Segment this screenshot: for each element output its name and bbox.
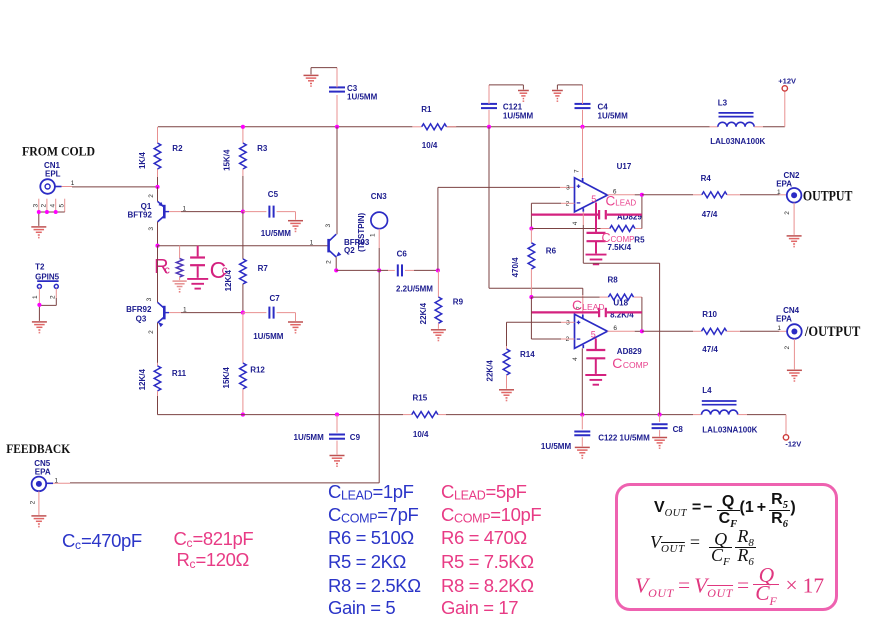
ground (R14): [499, 390, 514, 402]
ground (CCOMP U17, magenta): [586, 255, 607, 265]
svg-text:(TESTPIN): (TESTPIN): [357, 212, 366, 251]
wire: output to R4: [642, 194, 693, 196]
svg-text:R11: R11: [172, 369, 187, 378]
node: CN1/R2/Q1 junction: [155, 185, 159, 189]
node: rail/C3 junction: [335, 125, 339, 129]
svg-text:3: 3: [325, 224, 332, 228]
resistor R10: [693, 310, 740, 354]
svg-text:CN1: CN1: [44, 161, 61, 170]
resistor R5: [608, 226, 646, 252]
node: Q2 emitter junction: [334, 268, 338, 272]
svg-text:7: 7: [574, 169, 581, 173]
inductor L4: [702, 386, 787, 435]
capacitor C7: [243, 294, 296, 341]
svg-text:C: C: [606, 194, 616, 209]
connector CN4 EPA: [776, 306, 802, 369]
text Cc=821pF (pink): [174, 528, 254, 550]
capacitor Cc (compensation): [190, 246, 228, 283]
wire: C6 node to U17 + input: [438, 187, 575, 270]
svg-text:/OUTPUT: /OUTPUT: [804, 324, 861, 340]
ground (Cc, magenta): [187, 279, 208, 289]
capacitor C4: [557, 85, 628, 127]
node: Q1 collector node: [155, 244, 159, 248]
svg-text:2: 2: [566, 201, 570, 208]
svg-text:R8: R8: [608, 275, 619, 284]
svg-text:L4: L4: [702, 386, 712, 395]
svg-text:R5: R5: [634, 236, 645, 245]
svg-text:CN3: CN3: [371, 192, 388, 201]
svg-text:BFR92: BFR92: [126, 305, 152, 314]
svg-text:2: 2: [41, 204, 48, 208]
text column: gain=17 settings (pink): [441, 481, 527, 503]
capacitor C9: [294, 415, 361, 455]
svg-text:1: 1: [777, 189, 781, 196]
svg-text:22K/4: 22K/4: [485, 360, 494, 382]
capacitor C6: [388, 250, 438, 294]
svg-text:4: 4: [572, 357, 579, 361]
svg-text:1: 1: [32, 295, 39, 299]
wire: CN1 pin1 to Q1 node: [72, 186, 158, 188]
formula box: [615, 483, 838, 611]
node: R6/R8/CLEAD/U18 junction: [529, 295, 533, 299]
resistor R4: [693, 174, 740, 219]
ground (CCOMP U18, magenta): [585, 375, 606, 385]
node: R13/C9/rail junction: [335, 413, 339, 417]
svg-text:R12: R12: [250, 365, 265, 374]
svg-text:2: 2: [50, 295, 57, 299]
formula Vout = Vout(bar) = Q/CF x 17 (pink): [635, 567, 824, 606]
svg-text:47/4: 47/4: [702, 210, 718, 219]
text Rc=120ohm (pink): [177, 549, 249, 571]
svg-text:U17: U17: [617, 162, 632, 171]
connector CN3 TESTPIN: [357, 192, 388, 270]
node: T2 junction: [37, 303, 41, 307]
formula Vout(bar) = Q/CF * R8/R6: [650, 529, 756, 567]
svg-text:10/4: 10/4: [422, 141, 438, 150]
resistor R6: [511, 229, 557, 298]
wire: +12V top rail: [158, 126, 710, 128]
svg-text:EPA: EPA: [35, 468, 51, 477]
resistor R3: [223, 127, 268, 212]
svg-text:1U/5MM: 1U/5MM: [541, 442, 572, 451]
svg-text:2.2U/5MM: 2.2U/5MM: [396, 285, 433, 294]
node: Q3 base/C7/R7/R12 junction: [241, 311, 245, 315]
ground (R9): [431, 330, 446, 342]
svg-text:C121: C121: [503, 102, 523, 111]
node: Q1 base/C5/R3/R7 junction: [241, 210, 245, 214]
text column: gain=5 settings (blue): [328, 481, 414, 503]
resistor R14: [485, 346, 535, 389]
node: C8/rail junction: [658, 413, 662, 417]
svg-text:Q2: Q2: [344, 246, 355, 255]
formula Vout = -Q/CF(1+R5/R6): [654, 492, 796, 528]
svg-text:LAL03NA100K: LAL03NA100K: [710, 137, 765, 146]
svg-text:470/4: 470/4: [511, 257, 520, 278]
svg-text:EPA: EPA: [776, 315, 792, 324]
svg-text:3: 3: [32, 204, 39, 208]
svg-text:R1: R1: [421, 105, 432, 114]
svg-text:1U/5MM: 1U/5MM: [261, 229, 292, 238]
svg-text:12K/4: 12K/4: [138, 369, 147, 391]
svg-text:R10: R10: [702, 310, 717, 319]
wire: U18 pin4 to rail: [581, 348, 583, 414]
svg-text:R14: R14: [520, 350, 535, 359]
power -12V: [783, 415, 801, 449]
svg-text:EPA: EPA: [776, 180, 792, 189]
svg-text:EPL: EPL: [45, 170, 61, 179]
node: rail/C121 junction: [487, 125, 491, 129]
svg-text:R4: R4: [701, 174, 712, 183]
svg-text:4: 4: [49, 204, 56, 208]
svg-text:2: 2: [148, 330, 155, 334]
svg-text:1U/5MM: 1U/5MM: [347, 93, 378, 102]
svg-text:2: 2: [148, 194, 155, 198]
svg-text:R7: R7: [258, 264, 269, 273]
svg-text:C5: C5: [268, 190, 279, 199]
text Cc=470pF (blue): [62, 530, 142, 552]
ground (T2): [32, 322, 47, 334]
svg-text:FEEDBACK: FEEDBACK: [6, 442, 70, 456]
svg-text:T2: T2: [35, 263, 45, 272]
wire: Q1 base to C5 node: [181, 211, 243, 213]
connector CN1 EPL: [40, 161, 75, 194]
wire: feedback riser (CN3 to CN5): [47, 270, 379, 483]
capacitor C122: [541, 415, 650, 451]
svg-text:Q3: Q3: [136, 315, 147, 324]
wire: U18 + input / R14: [507, 322, 575, 346]
connector CN5 EPA: [29, 459, 58, 515]
wire: C3 node to Q2 collector: [336, 127, 338, 234]
svg-text:15K/4: 15K/4: [222, 367, 231, 389]
wire: R5 feedback: [531, 195, 642, 229]
svg-text:2: 2: [784, 211, 791, 215]
svg-text:3: 3: [148, 227, 155, 231]
svg-text:FROM COLD: FROM COLD: [22, 144, 95, 158]
wire: supply riser to U18 pin7: [489, 127, 583, 314]
ground (C7): [288, 322, 303, 334]
wire: Q1 collector to Q2 base: [158, 245, 329, 247]
wire: Q3 base to C7 node: [181, 312, 243, 314]
resistor R15: [412, 394, 438, 439]
resistor R11: [138, 363, 187, 415]
svg-text:+12V: +12V: [778, 76, 796, 85]
svg-text:2: 2: [325, 260, 332, 264]
wire: Q2 emitter to C6: [336, 269, 388, 271]
capacitor C121: [481, 85, 533, 127]
svg-text:-12V: -12V: [785, 440, 801, 449]
node: CN1 pin4 junction: [54, 210, 58, 214]
svg-text:2: 2: [566, 336, 570, 343]
node: U17 -/R5/R6/CLEAD junction: [529, 226, 533, 230]
svg-text:R6: R6: [546, 247, 557, 256]
svg-text:3: 3: [146, 297, 153, 301]
svg-text:1: 1: [370, 233, 377, 237]
capacitor C8: [652, 415, 684, 437]
svg-text:22K/4: 22K/4: [419, 302, 428, 324]
svg-text:7.5K/4: 7.5K/4: [608, 243, 632, 252]
node: U17 output junction: [640, 193, 644, 197]
svg-text:c: c: [164, 264, 170, 276]
svg-text:COMP: COMP: [623, 360, 649, 370]
wire: R2 column: [157, 127, 159, 187]
svg-text:C8: C8: [673, 425, 684, 434]
svg-text:C: C: [602, 231, 611, 245]
svg-text:1U/5MM: 1U/5MM: [294, 433, 325, 442]
svg-text:3: 3: [566, 185, 570, 192]
op-amp U18 AD829: [566, 298, 643, 361]
wire: U17 pin4 to rail: [583, 212, 659, 415]
svg-text:C7: C7: [270, 294, 281, 303]
resistor Rc (compensation): [154, 246, 183, 280]
svg-text:5: 5: [591, 330, 596, 340]
svg-text:LAL03NA100K: LAL03NA100K: [702, 426, 757, 435]
svg-text:C4: C4: [598, 102, 609, 111]
svg-text:5: 5: [58, 204, 65, 208]
capacitor CLEAD (U17, magenta): [531, 194, 642, 220]
svg-text:OUTPUT: OUTPUT: [803, 189, 853, 205]
svg-text:R9: R9: [453, 298, 464, 307]
transistor Q1 BFT92: [128, 187, 187, 246]
ground (C9): [330, 456, 345, 468]
wire: output to R10: [642, 330, 693, 332]
power +12V: [778, 76, 796, 127]
svg-text:1: 1: [310, 240, 314, 247]
svg-text:R2: R2: [172, 144, 183, 153]
capacitor C5: [243, 190, 296, 238]
svg-text:1: 1: [71, 180, 75, 187]
svg-text:1U/5MM: 1U/5MM: [253, 332, 284, 341]
node: CN1 pin3 junction: [37, 210, 41, 214]
svg-text:1: 1: [55, 478, 59, 485]
capacitor CCOMP (U17, magenta): [587, 203, 635, 254]
ground (CN5): [31, 516, 46, 527]
op-amp U17 AD829: [566, 127, 643, 225]
transistor Q3 BFR92: [126, 246, 187, 363]
ground (C4): [552, 91, 563, 103]
wire: U17 output: [607, 194, 642, 196]
ground (C121): [518, 91, 529, 103]
ground (Rc): [172, 281, 186, 293]
ground (C8): [652, 438, 667, 450]
wire: R10 to CN4: [740, 330, 787, 332]
ground (CN4): [787, 370, 802, 382]
svg-text:1: 1: [777, 325, 781, 332]
wire: U18 - input: [531, 297, 574, 339]
wire: CN1 ground pins: [32, 199, 65, 226]
svg-text:C: C: [612, 355, 622, 371]
svg-text:1U/5MM: 1U/5MM: [598, 112, 629, 121]
svg-text:10/4: 10/4: [413, 430, 429, 439]
node: CN1 pin2 junction: [45, 210, 49, 214]
connector T2 GPIN5: [32, 263, 60, 321]
resistor R12: [222, 313, 266, 415]
transistor Q2 BFR93: [310, 224, 370, 271]
node: C6/R9/U17 junction: [436, 268, 440, 272]
svg-text:LEAD: LEAD: [615, 199, 636, 208]
wire: -12V bottom rail: [158, 414, 702, 416]
svg-text:C9: C9: [350, 433, 361, 442]
resistor R1: [421, 105, 446, 150]
svg-text:LEAD: LEAD: [582, 302, 604, 312]
node: C122/U18 pin4/rail junction: [580, 413, 584, 417]
resistor R9: [419, 270, 463, 328]
resistor R8: [608, 275, 635, 319]
svg-text:2: 2: [784, 346, 791, 350]
node: U18 output junction: [640, 329, 644, 333]
wire: U17 - input: [531, 203, 574, 228]
ground (CN2): [787, 236, 802, 248]
svg-text:C: C: [572, 297, 582, 313]
node: CN3/feedback junction: [377, 268, 381, 272]
node: rail/C4 junction: [580, 125, 584, 129]
ground (C5): [288, 221, 303, 233]
ground (C122): [575, 447, 590, 459]
svg-text:2: 2: [29, 500, 36, 504]
svg-text:12K/4: 12K/4: [224, 270, 233, 292]
ground (CN1): [31, 227, 46, 239]
ground (C3): [304, 75, 319, 87]
svg-text:4: 4: [572, 221, 579, 225]
resistor R2: [138, 143, 183, 169]
connector CN2 EPA: [776, 171, 801, 235]
inductor L3: [710, 98, 785, 146]
node: bottom rail/R12 junction: [241, 413, 245, 417]
svg-text:3: 3: [566, 320, 570, 327]
resistor R7: [224, 212, 268, 313]
wire: U18 output: [607, 330, 642, 332]
svg-text:R3: R3: [257, 144, 268, 153]
svg-text:COMP: COMP: [611, 235, 635, 244]
wire: R8 feedback: [531, 297, 642, 331]
capacitor CLEAD (U18, magenta): [531, 297, 642, 317]
capacitor CCOMP (U18, magenta): [586, 338, 648, 374]
svg-text:1U/5MM: 1U/5MM: [503, 112, 534, 121]
node: rail/R3 junction: [241, 125, 245, 129]
capacitor C3: [311, 68, 378, 127]
svg-text:R15: R15: [413, 394, 428, 403]
svg-text:BFT92: BFT92: [128, 211, 153, 220]
svg-text:15K/4: 15K/4: [223, 149, 232, 171]
svg-text:47/4: 47/4: [702, 345, 718, 354]
svg-text:1K/4: 1K/4: [138, 152, 147, 169]
wire: R4 to CN2: [740, 194, 787, 196]
svg-text:C122 1U/5MM: C122 1U/5MM: [598, 433, 650, 442]
svg-text:C6: C6: [397, 250, 408, 259]
svg-text:L3: L3: [718, 98, 728, 107]
